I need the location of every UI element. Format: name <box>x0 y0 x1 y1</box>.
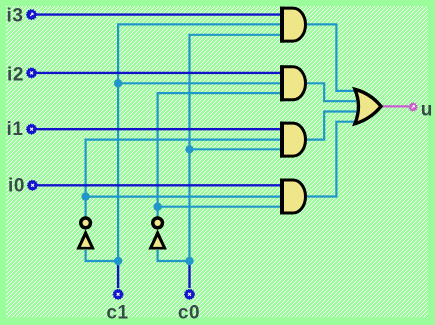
svg-text:i0: i0 <box>8 175 25 196</box>
svg-text:c1: c1 <box>106 303 128 324</box>
svg-text:c0: c0 <box>178 303 200 324</box>
svg-text:i1: i1 <box>7 119 24 140</box>
svg-text:i2: i2 <box>7 65 24 86</box>
svg-text:i3: i3 <box>7 5 24 26</box>
svg-text:u: u <box>421 99 433 120</box>
